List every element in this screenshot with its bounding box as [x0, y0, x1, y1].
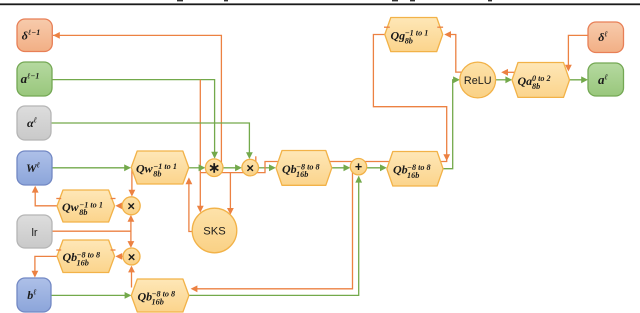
box delta l-1: [17, 19, 52, 52]
tick Qg hexagon right: [437, 26, 443, 28]
circle ReLU: [460, 62, 496, 98]
wire: bottom Qb hexagon right to plus circle bottom (green): [189, 177, 359, 296]
svg-text:−1 to 1: −1 to 1: [79, 200, 103, 209]
box delta l: [588, 22, 624, 53]
circle plus operator: [350, 159, 366, 175]
svg-text:×: ×: [128, 249, 136, 264]
svg-text:∗: ∗: [208, 161, 220, 177]
wire: SKS output up into big Qw hexagon (orange): [189, 184, 193, 232]
hexagon Qw 8b -1to1 (small, weight update): [57, 190, 115, 222]
wire: alpha l green line to times circle: [51, 123, 249, 158]
header horizontal rule: [0, 3, 640, 5]
wire: times1 circle to small Qw hexagon (orange): [119, 205, 123, 207]
wire: b l to bottom Qb hexagon (green): [51, 294, 129, 296]
svg-text:16b: 16b: [407, 171, 419, 180]
svg-text:×: ×: [127, 199, 135, 214]
svg-text:Qw: Qw: [136, 162, 154, 176]
circle times1 (weight update multiply): [122, 197, 140, 215]
svg-text:−8 to 8: −8 to 8: [407, 163, 431, 172]
svg-text:ReLU: ReLU: [464, 75, 492, 87]
svg-text:Qb: Qb: [63, 250, 78, 264]
svg-text:−8 to 8: −8 to 8: [152, 290, 176, 299]
svg-text:0 to 2: 0 to 2: [532, 74, 551, 83]
svg-text:16b: 16b: [77, 258, 89, 267]
svg-text:8b: 8b: [405, 37, 413, 46]
hexagon Qb 16b -8to8 (bottom, after b): [131, 279, 189, 312]
svg-text:8b: 8b: [532, 82, 540, 91]
svg-text:Qb: Qb: [282, 162, 297, 176]
wire: small Qb hexagon to b l (orange): [35, 256, 57, 272]
wire: times2 circle to small Qb hexagon (orange): [119, 255, 123, 257]
wire: ReLU to Qa hexagon (green): [496, 79, 510, 81]
hexagon Qa 8b 0to2 (activation quant): [512, 63, 570, 98]
svg-text:−8 to 8: −8 to 8: [296, 162, 320, 171]
box alpha l: [17, 106, 51, 140]
wire: delta l down into Qa hexagon (orange): [568, 35, 588, 66]
wire: bottom Qb hexagon up to times2 circle (orange): [131, 267, 133, 288]
tick small Qb hexagon right: [111, 249, 116, 251]
header text remnants (cropped running title descenders): [177, 0, 183, 1]
tick small Qw hexagon left: [56, 198, 61, 200]
svg-text:8b: 8b: [153, 170, 161, 179]
tick small Qw hexagon right: [111, 198, 116, 200]
wire: orange up into Qg right vertex: [449, 35, 462, 73]
wire: a l-1 drop down to SKS (orange): [199, 80, 201, 207]
wire: big Qw hexagon down to times1 circle (orange): [131, 170, 133, 192]
wire: W l to Qw hexagon (green): [52, 167, 129, 169]
wire: center Qb hexagon to plus circle (green): [332, 167, 348, 169]
box a l: [588, 63, 624, 96]
hexagon Qw 8b -1to1 (big, after W): [131, 151, 189, 184]
circle conv* operator: [205, 159, 223, 177]
wire: stub above times circle (orange): [255, 156, 257, 162]
svg-text:Qw: Qw: [62, 200, 80, 214]
svg-text:lr: lr: [31, 227, 37, 239]
hexagon Qb 16b -8to8 (small, bias update): [57, 240, 115, 273]
wire: Qa hexagon to a l (green): [570, 79, 587, 81]
wire: backward pass-behind line from ReLU/Qg down and left to SKS (orange): [200, 35, 446, 173]
tick Qg hexagon left: [384, 26, 390, 28]
svg-text:Qb: Qb: [138, 289, 153, 303]
box W l: [17, 151, 52, 185]
wire: conv* output up to delta l-1 (orange): [53, 35, 221, 163]
box b l: [17, 278, 51, 312]
wire: Qw hexagon to conv* (green): [189, 167, 203, 169]
wire: plus circle to right Qb hexagon (green): [367, 167, 385, 169]
svg-text:8b: 8b: [79, 208, 87, 217]
wire: times circle to center Qb hexagon (green): [259, 167, 274, 169]
wire: lr to multiply circles (orange): [52, 230, 131, 232]
wire: small Qw hexagon to W l (orange): [35, 190, 57, 206]
tick small Qb hexagon left: [56, 249, 61, 251]
svg-text:−1 to 1: −1 to 1: [405, 29, 429, 38]
wire: T-drop from backward line into SKS (orange): [229, 173, 231, 209]
box lr: [17, 215, 52, 248]
svg-text:Qa: Qa: [518, 74, 533, 88]
hexagon Qb 16b -8to8 (center, after times): [276, 151, 332, 186]
hexagon Qb 16b -8to8 (right, after plus): [387, 152, 443, 187]
hexagon Qg 8b -1to1 (gradient quant): [385, 18, 443, 52]
wire: right Qb hexagon up to ReLU (green): [443, 80, 458, 169]
svg-text:−1 to 1: −1 to 1: [153, 162, 177, 171]
wire: conv* to times circle (green): [223, 167, 240, 169]
svg-text:SKS: SKS: [203, 226, 225, 238]
wire: Qa upper-left to ReLU (orange): [508, 71, 516, 73]
wire: plus circle down to bottom Qb hexagon (orange): [197, 170, 353, 289]
svg-text:Qb: Qb: [393, 163, 408, 177]
svg-text:×: ×: [246, 160, 254, 175]
svg-text:+: +: [355, 160, 362, 174]
svg-text:Qg: Qg: [391, 28, 406, 42]
box a l-1: [17, 62, 52, 96]
circle times operator (forward scale): [242, 159, 259, 176]
svg-text:16b: 16b: [296, 170, 308, 179]
wire: a l-1 green line to conv*: [52, 80, 215, 158]
circle times2 (bias update multiply): [123, 248, 140, 265]
svg-text:16b: 16b: [152, 298, 164, 307]
svg-text:−8 to 8: −8 to 8: [77, 251, 101, 260]
circle SKS: [192, 208, 237, 253]
